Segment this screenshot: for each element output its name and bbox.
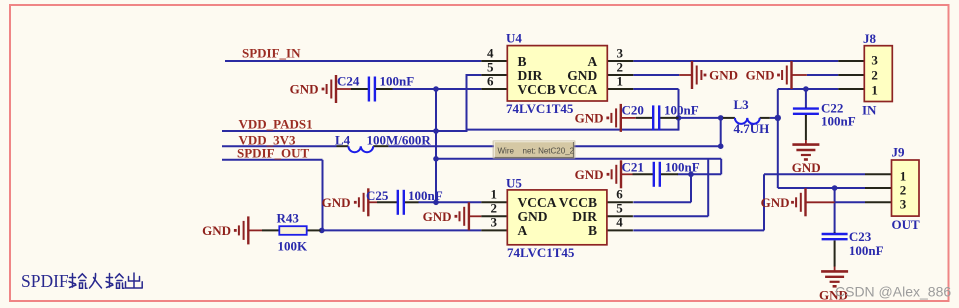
wire riser x721 down to C21 row — [720, 159, 722, 175]
svg-text:J9: J9 — [892, 145, 906, 160]
svg-text:GND: GND — [518, 209, 548, 224]
ground GND for C24 — [322, 75, 351, 103]
node C22 junction — [803, 86, 809, 92]
svg-text:C20: C20 — [622, 103, 644, 118]
svg-text:A: A — [588, 54, 598, 69]
wire SPDIF_IN horizontal — [225, 60, 481, 62]
wire branch y158.8 (x436 to x721) — [436, 158, 721, 160]
svg-text:6: 6 — [487, 73, 494, 88]
svg-text:5: 5 — [487, 59, 494, 74]
node VDD_PADS1 junction — [433, 128, 439, 134]
svg-text:VCCA: VCCA — [518, 195, 557, 210]
svg-text:U4: U4 — [506, 31, 522, 46]
svg-text:4: 4 — [487, 45, 494, 60]
wire C23 lower pin — [834, 241, 836, 267]
svg-text:VCCB: VCCB — [559, 195, 597, 210]
wire C25 output to U5 pin1 — [418, 201, 481, 203]
wire J9 pin1 row horizontal — [764, 173, 865, 175]
capacitor C24 100nF — [351, 77, 393, 102]
ground GND for U4 pin2 (left of pair) — [679, 61, 706, 89]
wire L3 right to dot — [770, 117, 778, 119]
svg-text:Wire: Wire — [498, 146, 515, 155]
capacitor C25 100nF — [377, 190, 419, 215]
wire riser x764 up to J9 pin1 row — [763, 174, 765, 230]
wire SPDIF_OUT horizontal — [222, 159, 323, 161]
ground GND for J8 pin2 (right of pair) — [777, 61, 807, 89]
node L3 left junction — [718, 115, 724, 121]
IC body U5 74LVC1T45 — [481, 190, 633, 245]
svg-text:GND: GND — [202, 223, 231, 238]
wire J9 pin2 row horizontal — [778, 187, 865, 189]
svg-text:net: NetC20_2: net: NetC20_2 — [523, 146, 575, 155]
node R43 junction — [319, 228, 325, 234]
svg-text:DIR: DIR — [572, 209, 597, 224]
wire riser x691 down to U5 VCCB row — [690, 174, 692, 202]
svg-text:SPDIF_OUT: SPDIF_OUT — [237, 145, 310, 160]
capacitor C22 100nF — [793, 107, 819, 116]
svg-text:2: 2 — [900, 183, 907, 198]
capacitor C23 100nF — [822, 232, 848, 241]
wire VDD_3V3 right segment to L3 riser — [388, 145, 720, 147]
svg-text:DIR: DIR — [518, 68, 543, 83]
wire U5 DIR row horizontal — [633, 215, 708, 217]
svg-text:100nF: 100nF — [849, 243, 884, 258]
svg-text:C24: C24 — [337, 74, 360, 89]
svg-text:3: 3 — [871, 53, 878, 68]
wire U5 pin4 B row — [633, 229, 764, 231]
wire vertical bus x436 (pin6 row down to C25 row) — [435, 89, 437, 202]
svg-text:1: 1 — [617, 73, 624, 88]
ground GND for U5 pin2 — [455, 202, 482, 230]
svg-text:GND: GND — [792, 160, 821, 175]
svg-text:SPDIF_IN: SPDIF_IN — [242, 46, 301, 61]
svg-text:5: 5 — [616, 201, 623, 216]
node VDD_3V3 end junction — [718, 143, 724, 149]
glyph ru4 — [90, 274, 102, 289]
svg-text:L4: L4 — [335, 132, 351, 147]
node branch junction — [433, 156, 439, 162]
svg-text:IN: IN — [862, 103, 877, 118]
svg-text:GND: GND — [567, 68, 597, 83]
svg-text:GND: GND — [423, 209, 452, 224]
ground GND for R43 — [234, 216, 262, 244]
wire R43 output to U5 pin3 — [320, 229, 481, 231]
svg-text:74LVC1T45: 74LVC1T45 — [507, 245, 575, 260]
svg-text:GND: GND — [746, 68, 775, 83]
node C25 row junction — [433, 200, 439, 206]
svg-text:1: 1 — [491, 187, 498, 202]
wire VDD_PADS1 horizontal — [222, 130, 467, 132]
svg-text:100nF: 100nF — [408, 188, 443, 203]
svg-text:2: 2 — [491, 201, 498, 216]
svg-text:B: B — [588, 223, 597, 238]
svg-text:GND: GND — [322, 195, 351, 210]
node C24/pin6 junction — [433, 86, 439, 92]
svg-text:C21: C21 — [622, 160, 644, 175]
ground GND below C22 (earth symbol) — [792, 140, 819, 161]
wire U4 pin5 stub wire — [466, 74, 482, 76]
svg-text:VCCB: VCCB — [518, 82, 556, 97]
ground GND for C25 — [354, 188, 377, 216]
wire C20 row to riser x720.7 — [679, 117, 723, 119]
ground GND for J9 pin3 — [791, 188, 835, 216]
svg-text:1: 1 — [900, 169, 907, 184]
svg-text:A: A — [518, 223, 528, 238]
connector J9 — [865, 160, 919, 216]
svg-text:3: 3 — [491, 215, 498, 230]
svg-text:100nF: 100nF — [380, 74, 415, 89]
inductor L3 4.7UH — [723, 118, 770, 124]
svg-text:L3: L3 — [734, 97, 750, 112]
svg-text:GND: GND — [575, 167, 604, 182]
glyph chu1 — [126, 273, 143, 288]
svg-text:SPDIF: SPDIF — [21, 271, 69, 291]
svg-text:100M/600R: 100M/600R — [367, 132, 432, 147]
wire J8 pin1 row horizontal — [778, 88, 839, 90]
capacitor C21 100nF — [633, 162, 679, 187]
tooltip Wire net NetC20_2 — [493, 140, 576, 159]
inductor L4 100M/600R — [337, 146, 389, 152]
svg-text:3: 3 — [900, 197, 907, 212]
svg-text:U5: U5 — [506, 176, 522, 191]
svg-text:1: 1 — [871, 83, 878, 98]
wire C24 to U4 pin6 — [392, 88, 481, 90]
wire riser x708 down to U5 DIR row — [707, 159, 709, 217]
svg-text:CSDN @Alex_886: CSDN @Alex_886 — [835, 284, 951, 300]
wire VDD_3V3 left segment — [222, 145, 337, 147]
wire DIR riser x466 (VDD_PADS1 up to U4 pin5) — [466, 75, 468, 132]
wire riser x777.8 (J8 pin1 row down to J9 pin2 row) — [777, 89, 779, 188]
wire riser x720.7 down to VDD_3V3 row — [720, 118, 722, 146]
ground GND for C20 — [606, 104, 635, 132]
wire C23 feed vertical — [834, 188, 836, 232]
wire right GND to J8 pin2 — [807, 74, 839, 76]
svg-text:J8: J8 — [863, 31, 877, 46]
wire U4 pin3 row to J8 pin3 — [633, 60, 838, 62]
svg-text:VCCA: VCCA — [558, 82, 597, 97]
wire SPDIF_OUT riser down to R43 row — [322, 160, 324, 231]
svg-text:C25: C25 — [366, 188, 389, 203]
capacitor C20 100nF — [636, 105, 679, 130]
svg-text:C23: C23 — [849, 229, 872, 244]
wire riser x678.5 (pin1 down to long line) — [678, 89, 680, 131]
svg-text:GND: GND — [575, 111, 604, 126]
wire C22 lower pin — [805, 115, 807, 140]
resistor R43 100K — [262, 226, 321, 235]
node C23/J9 pin2 junction — [832, 185, 838, 191]
svg-text:VDD_PADS1: VDD_PADS1 — [239, 116, 313, 131]
wire U5 VCCB row horizontal — [633, 201, 691, 203]
svg-text:2: 2 — [617, 59, 624, 74]
wire U4 pin2 to left GND — [633, 74, 679, 76]
svg-text:GND: GND — [761, 195, 790, 210]
wire U4 pin1 to riser x678.5 — [633, 88, 678, 90]
svg-text:B: B — [518, 54, 527, 69]
wire GND to J9 pin3 blue part — [835, 201, 865, 203]
svg-text:100nF: 100nF — [664, 103, 699, 118]
node L3 right junction — [775, 115, 781, 121]
svg-text:GND: GND — [709, 68, 738, 83]
ground GND below C23 (earth symbol) — [821, 266, 848, 288]
svg-text:R43: R43 — [277, 211, 300, 226]
svg-text:100nF: 100nF — [665, 160, 700, 175]
wire long line y129.6 (x465 to C20 riser) — [466, 129, 679, 131]
connector J8 — [838, 46, 892, 102]
svg-text:2: 2 — [871, 68, 878, 83]
wire C21 output to riser — [678, 173, 722, 175]
svg-text:6: 6 — [616, 187, 623, 202]
svg-text:GND: GND — [290, 82, 319, 97]
svg-text:3: 3 — [617, 45, 624, 60]
svg-text:100K: 100K — [278, 239, 309, 254]
svg-text:OUT: OUT — [892, 217, 921, 232]
glyph shu1 (2) — [106, 274, 124, 289]
glyph shu1 (1) — [69, 274, 87, 289]
svg-text:74LVC1T45: 74LVC1T45 — [506, 101, 574, 116]
node C20 junction — [676, 115, 682, 121]
IC body U4 74LVC1T45 — [481, 46, 633, 101]
svg-text:4.7UH: 4.7UH — [734, 121, 770, 136]
svg-text:4: 4 — [616, 215, 623, 230]
wire C22 top feed — [805, 89, 807, 107]
svg-text:100nF: 100nF — [821, 114, 856, 129]
ground GND for C21 — [607, 160, 633, 188]
node C21 junction — [688, 172, 694, 178]
